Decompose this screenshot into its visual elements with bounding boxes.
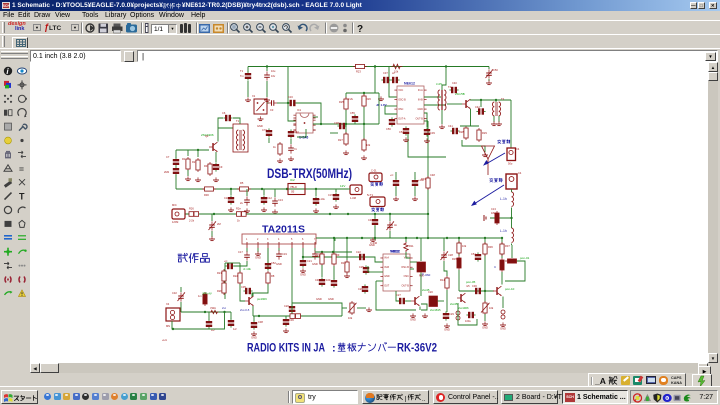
svg-text:C37: C37 [383,71,388,75]
capacitor C22 series [357,254,366,260]
wire R26 chain [363,107,365,140]
wire volume rail [181,311,231,313]
capacitor C18 [225,263,234,269]
taskbar [0,386,720,405]
svg-text:C13: C13 [278,198,283,202]
wire R22 to base [240,284,245,301]
svg-text:C35: C35 [241,285,246,289]
svg-text:2sc1906: 2sc1906 [458,306,469,310]
svg-text:VWA: VWA [210,306,216,310]
svg-text:R15: R15 [452,257,457,261]
wire TA pin3 [267,248,269,270]
svg-text:OSC-B: OSC-B [401,266,409,269]
svg-text:C9: C9 [219,165,223,169]
svg-text:R28: R28 [459,130,464,134]
svg-text:IN-A: IN-A [384,257,389,260]
transformer T1 in shield [237,130,245,150]
svg-text:MN: MN [166,324,170,328]
capacitor C29 [443,311,449,320]
connector X6 [506,174,517,189]
trimmer capacitor R32 [389,214,391,221]
resistor R1 [187,150,189,156]
resistor R12 big [417,262,426,272]
capacitor C55 [352,114,358,123]
svg-text:rx5: rx5 [466,284,470,288]
wire U1 bottom pin [297,129,306,137]
svg-text:GND: GND [312,262,318,266]
connector X8 [370,197,385,207]
wire U2 gnd pin [376,280,383,282]
resistor R35 [457,241,461,255]
command bar [0,48,720,62]
wire U2 in-b [368,271,383,273]
wire loop above U1 [288,102,289,104]
wire R16 to collector [501,272,503,285]
wire TA pin1 [246,248,248,252]
resistor R15 filled [457,256,461,270]
junction C [445,65,447,67]
svg-text:100u: 100u [465,319,471,323]
ground C1 [245,97,251,101]
svg-text:C19: C19 [282,252,287,256]
wire L chain top [511,245,513,258]
text label annotation 試作品 [178,253,182,255]
capacitor C35 [243,288,252,294]
capacitor C5 below U1 [288,144,294,153]
wire top supply rail [248,66,489,68]
resistor R27 [344,132,348,146]
svg-text:R30: R30 [204,193,209,197]
svg-text:R12: R12 [393,62,398,63]
svg-text:C-040: C-040 [370,241,378,245]
ground crystal [258,116,264,120]
svg-text:R2b: R2b [217,289,222,293]
capacitor C20 on pin5 [289,304,295,313]
svg-text:C38: C38 [258,320,263,324]
svg-text:T: T [19,192,25,202]
svg-text:12V: 12V [340,184,345,188]
svg-text:C51: C51 [471,252,476,256]
shield box with coil [233,124,248,152]
svg-text:+10u: +10u [319,197,325,201]
capacitor C9 emitter [215,152,217,162]
resistor R28 box [464,126,468,140]
wire TA pin5 long [291,248,293,303]
svg-text:RK-36V2: RK-36V2 [397,343,437,355]
wire audio supply rail [176,188,348,190]
capacitor C25 [363,265,369,274]
capacitor C10 [230,189,232,195]
svg-text:Jr-10k: Jr-10k [243,267,251,271]
wire left net h [330,132,338,134]
capacitor C38 [337,123,346,129]
svg-text:2sc1815: 2sc1815 [430,308,441,312]
capacitor C15 [335,189,337,192]
svg-text:R18: R18 [291,309,296,313]
svg-text:IN-B: IN-B [384,266,389,269]
op-amp U1 mixer SA612 [293,113,315,133]
wire T3 top [495,100,497,102]
wire Q8 collector rail [471,99,512,102]
svg-text:R26: R26 [189,207,194,211]
svg-text:6: 6 [302,238,304,241]
svg-text:10k: 10k [489,306,494,310]
trimmer resistor VR1 [350,301,354,315]
svg-text:C48: C48 [430,173,435,177]
capacitor C17 [244,251,250,260]
transformer T3 output [493,102,501,116]
svg-text:Tm: Tm [240,74,244,78]
wire TA pin4 [278,248,280,251]
svg-text:2sc45: 2sc45 [450,302,458,306]
svg-text:1k: 1k [237,219,240,223]
svg-text:100: 100 [326,278,331,282]
wire x459 lower [458,270,460,291]
wire Q6 collector top [252,293,254,296]
svg-text:U-5A6: U-5A6 [299,136,308,140]
wire left bias vertical [224,263,226,299]
title bar [0,0,720,11]
wire Q5 emitter [502,297,504,309]
wire feedback loop [505,261,525,281]
wire U3 left pins [385,105,397,107]
svg-text:2SC/5B: 2SC/5B [455,92,465,96]
capacitor C19 [276,250,282,259]
svg-text:C15: C15 [328,193,333,197]
svg-text:16v: 16v [271,74,276,78]
svg-text:pw1906: pw1906 [257,297,267,301]
via pair Q5 [501,310,505,319]
capacitor C30 [473,288,482,294]
trimmer resistor VR2 [483,301,487,315]
wire Q2 base rail [176,149,209,151]
crystal Q1 box [254,99,267,114]
wire long vertical from mixer output [427,121,429,238]
svg-text:C40: C40 [452,81,457,85]
capacitor C34 [230,312,232,319]
wire y316 af [253,315,342,317]
svg-text:C32: C32 [172,291,177,295]
svg-text:C16: C16 [288,95,293,99]
wire cap to mixer [277,102,288,104]
connector X7 [369,173,382,182]
resistor R6 [189,212,199,217]
svg-text:GND: GND [417,108,423,111]
wire af loop [292,303,342,316]
svg-text:R3: R3 [204,164,208,168]
wire bias network top [346,92,379,94]
svg-text:OSC: OSC [404,275,409,278]
resistor R16 filled [500,258,504,272]
svg-text:C54: C54 [399,130,404,134]
svg-text:R5: R5 [240,181,244,185]
horizontal scrollbar [30,363,708,373]
wire Q8 emitter [470,109,472,126]
wire vertical to oscillator transformer [442,67,446,91]
resistor R40 [278,142,282,156]
wire vertical feed to mixer U1 [288,67,296,122]
resistor R7 [237,212,247,217]
svg-text:R8: R8 [271,274,275,278]
svg-text:C4: C4 [516,147,520,151]
resistor R25 [345,93,347,98]
capacitor C6 [223,115,232,121]
wire osc top [218,118,223,128]
svg-text:GND: GND [257,124,263,128]
resistor R33 on mixer line [426,176,430,190]
capacitor C42 [480,100,482,107]
ground C37 [378,96,384,100]
capacitor C51 [475,252,481,261]
svg-text:3o: 3o [394,223,397,227]
capacitor C38b [253,316,255,321]
svg-text:10k: 10k [366,143,371,147]
svg-text:GND: GND [276,262,282,266]
ground R38 [361,155,367,159]
svg-text:R2: R2 [192,160,196,164]
wire osc out [447,103,462,105]
svg-text:4: 4 [278,238,280,241]
wire to antenna connector [510,100,512,148]
svg-text:2-2k: 2-2k [189,219,195,223]
svg-text:C40: C40 [294,130,299,134]
wire Q3 emitter [419,307,421,311]
trimmer capacitor C43 [488,67,490,70]
wire y252 branch [315,251,352,253]
ground emitter [482,152,488,156]
ground R10 [344,273,350,277]
capacitor C47 [395,172,397,179]
svg-text:+C: +C [390,173,394,177]
IC5 NE612 main mixer [394,86,426,124]
resistor R5 on rail [237,187,251,191]
capacitor C21 [302,257,304,259]
wire Q6 emitter to af [252,306,254,316]
connector X3 microphone [172,209,185,219]
ground R2 [195,177,201,181]
wire left drop [334,238,336,241]
wire TA pin2 [257,248,259,252]
svg-text:C38: C38 [334,121,339,125]
svg-text:C36: C36 [289,318,294,322]
resistor R39 big [429,296,438,307]
svg-text:C3: C3 [270,108,274,112]
IC4 NE612 mixer 2 [380,254,412,291]
svg-text:+H1: +H1 [162,338,167,342]
ground above U2 [370,237,376,241]
capacitor C13 [274,189,276,197]
wire Q4 loop [458,303,477,325]
wire L3 bottom [511,244,513,246]
label 変更部 upper [497,139,500,141]
capacitor C24 [331,278,337,287]
ground VR1 [366,307,372,311]
svg-text:N6612: N6612 [390,250,400,254]
svg-text:1-0M: 1-0M [350,196,356,200]
svg-text:VCC: VCC [398,89,403,92]
svg-text:C26: C26 [358,287,363,291]
svg-text:MIC: MIC [172,203,177,207]
svg-text:GND: GND [482,325,488,329]
wire T2 bottom [441,110,443,124]
svg-text:2vc: 2vc [222,306,227,310]
svg-text:OUT-B: OUT-B [401,284,409,287]
svg-text:GND: GND [410,317,416,321]
ground chain x447 [444,323,450,327]
capacitor C33 [208,312,210,320]
resistor R17 filled feedback [505,259,519,263]
resistor R36 [483,242,487,256]
wire emitter loop [421,304,427,310]
capacitor C54 [403,126,409,135]
capacitor C8 left [173,166,179,175]
zigzag resistor R24 [392,64,403,68]
wire x485 vertical [484,238,486,302]
svg-text:C10: C10 [224,196,229,200]
ground Q3 left [410,313,416,317]
resistor R9 chain [333,238,335,253]
left tool palette [0,62,29,363]
svg-text:C17: C17 [238,250,243,254]
svg-text:X1: X1 [252,94,256,98]
svg-text:T1: T1 [236,119,240,123]
transistor Q4 lower left [457,293,466,303]
wire R12 to Q3 [420,273,422,297]
wire VR2 gnd [484,314,486,321]
label 変更部 lower [489,178,493,180]
svg-text:C7: C7 [166,155,170,159]
schematic canvas [30,62,708,363]
capacitor C11 [246,189,248,196]
IME language bar [588,373,686,387]
svg-text:pon-01: pon-01 [520,256,530,260]
svg-text:T1: T1 [240,69,244,73]
svg-text:R22: R22 [233,274,238,278]
wire Q2 collector [218,128,233,142]
resistor R20 filled [203,292,207,306]
svg-text:1: 1 [246,238,248,241]
resistor R2 [197,150,199,157]
svg-text:R14: R14 [440,278,445,282]
resistor R26 [363,93,365,95]
svg-text:2M2: 2M2 [164,170,170,174]
resistor R30 filled [495,211,499,225]
capacitor C49 [321,265,323,277]
svg-text:|: | [405,395,407,402]
capacitor C23 [312,250,318,259]
capacitor C1 [247,67,249,73]
resistor R34 chain [321,252,323,253]
svg-text:C20: C20 [428,290,433,294]
svg-text:C46: C46 [368,218,373,222]
wire x459 vertical [458,238,460,256]
svg-text:Q2: Q2 [205,134,209,138]
transistor Q3 [411,296,420,306]
svg-text:R34: R34 [315,254,320,258]
svg-text:JPR-AV: JPR-AV [202,292,212,296]
svg-text:IC1: IC1 [297,108,302,112]
wire U2 right pins [410,261,417,263]
svg-text:X4: X4 [166,302,170,306]
connector X5 antenna [507,148,516,161]
svg-text:R2e: R2e [236,207,241,211]
svg-text:GND: GND [251,335,257,339]
capacitor C3 [268,100,277,106]
svg-text:GND: GND [500,326,506,330]
svg-text:C13: C13 [491,207,496,211]
svg-text:50o: 50o [508,162,513,166]
arrow annotation 2 [471,185,504,206]
svg-text:R29: R29 [482,131,487,135]
resistor R14 [445,276,449,290]
svg-text:GND: GND [300,272,306,276]
svg-text:OUT-B: OUT-B [415,117,423,120]
svg-text:R27: R27 [338,138,343,142]
resistor R38 [362,138,366,152]
svg-text:..: .. [422,397,426,403]
capacitor C27 [397,298,406,304]
svg-text:10k: 10k [462,244,467,248]
svg-text:1k: 1k [273,145,276,149]
transistor Q6 [245,296,254,306]
capacitor C56 [389,117,395,126]
trimmer capacitor C16 [211,214,213,221]
ground C43 [488,79,490,81]
svg-text:2u: 2u [240,201,243,205]
svg-text:1/OM: 1/OM [172,220,178,224]
svg-text:IN-B: IN-B [418,98,423,101]
capacitor C36 [285,316,287,318]
svg-text:R37: R37 [505,244,510,248]
label 変更部 X8 [371,207,374,209]
svg-text:R23: R23 [356,70,361,74]
svg-text:GND: GND [384,275,390,278]
svg-text:2vc-0-5: 2vc-0-5 [240,308,250,312]
trimmer capacitor C28 [443,238,445,251]
svg-text:+C: +C [224,259,228,263]
svg-text:78L0: 78L0 [290,185,297,189]
svg-text:RADIO KITS IN JA: RADIO KITS IN JA [247,343,325,355]
svg-text:C39: C39 [430,131,435,135]
svg-text:R1: R1 [182,157,186,161]
resistor R10 [346,238,348,260]
capacitor C52 [267,248,269,262]
svg-text:5/-T1: 5/-T1 [367,193,374,197]
inductor L2 [511,189,513,192]
label 変更部 X7 [370,182,373,184]
wire U1 out upper [313,116,318,118]
resistor R19 zig [210,310,218,313]
junction A [266,65,268,67]
svg-text:DSB-TRX(50MHz): DSB-TRX(50MHz) [267,165,352,181]
capacitor C14 electrolytic [315,189,317,196]
svg-text:R9: R9 [336,253,340,257]
capacitor C50 on loop [288,100,297,106]
svg-text:10u: 10u [271,69,276,73]
svg-text:05: 05 [291,190,295,194]
svg-text:2M: 2M [217,222,221,226]
svg-text:C28: C28 [448,253,453,257]
resistor R21a [222,269,226,283]
svg-text:L-1h: L-1h [500,229,507,233]
svg-text:C22: C22 [356,250,361,254]
capacitor C2 [266,67,268,72]
arrow annotation 1 [483,153,505,166]
via pair Q4 emitter [456,311,460,320]
svg-text:C41: C41 [448,124,453,128]
svg-text:pon-05: pon-05 [466,280,476,284]
resistor R37 [500,242,504,256]
